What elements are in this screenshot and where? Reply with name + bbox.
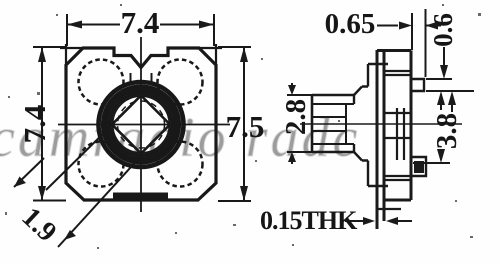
arrow 0.65 left: [426, 22, 439, 30]
svg-text:7.5: 7.5: [226, 109, 265, 144]
arrow 2.8 up (outside bottom): [288, 152, 296, 162]
dashed inner circle: [118, 101, 165, 148]
svg-text:2.8: 2.8: [280, 99, 312, 135]
dim: right 7.5 dimension line: [243, 47, 245, 201]
arrow 1.9 lower: [64, 230, 76, 240]
dim: left 7.4 dimension line: [41, 47, 43, 201]
dim 1.9 arrow tail upper: [14, 158, 44, 187]
dashed circle bottom-left: [79, 142, 124, 187]
snout (2.8 dia) outline: [312, 95, 354, 152]
plate right edge: [383, 50, 386, 221]
arrowheads group: [14, 21, 248, 241]
barrel (3.8 dia): [354, 64, 368, 186]
dim 2.8 line: [291, 83, 293, 164]
side centerline: [300, 123, 462, 125]
dashed circle bottom-right: [158, 142, 203, 187]
svg-text:0.6: 0.6: [428, 13, 458, 47]
centerline horizontal: [58, 124, 230, 126]
flange plate outline with chamfered corners: [66, 48, 216, 200]
ring 3: [107, 90, 176, 159]
arrow right7.5 up: [240, 47, 248, 62]
bottom tab: [411, 157, 426, 176]
dim 0.15 line: [345, 220, 412, 222]
barrel chamfer diagonals: [354, 87, 362, 161]
dim: right 7.5 extension lines: [218, 47, 251, 201]
arrow left7.4 up: [38, 47, 46, 62]
dim: top 7.4 dimension line: [67, 24, 214, 26]
top tab: [411, 79, 424, 91]
arrow 0.15 right: [363, 217, 375, 225]
svg-text:1.9: 1.9: [16, 202, 63, 249]
arrow 0.6 down: [440, 65, 448, 79]
body inner verticals: [397, 108, 404, 160]
bottom tab solder dot: [415, 162, 423, 172]
dashed circle top-left: [79, 60, 124, 105]
svg-text:0.65: 0.65: [325, 8, 376, 40]
svg-text:7.4: 7.4: [121, 5, 160, 40]
dim 3.8 ext line bottom: [413, 162, 450, 164]
svg-text:0.15THK: 0.15THK: [260, 206, 358, 235]
dim 0.65 ext lines: [412, 9, 426, 77]
arrow right7.5 down: [240, 186, 248, 201]
inner bore circle: [113, 96, 170, 153]
dim: top 7.4 extension lines: [67, 14, 214, 46]
arrow 3.8 down: [437, 149, 445, 163]
ring 2: [103, 87, 179, 163]
arrow top7.4 left: [67, 21, 82, 29]
arrow top7.4 right: [199, 21, 214, 29]
dim 0.65 leader: [377, 25, 441, 27]
notch edge hidden ticks: [131, 73, 152, 84]
dim 3.8 line: [440, 104, 442, 151]
snout inner bore lines: [312, 104, 354, 144]
arrow 1.9 upper: [14, 177, 26, 188]
arrow 2.8 down (outside top): [288, 85, 296, 95]
housing step: [368, 64, 388, 186]
watermark: [0, 107, 360, 169]
corner overshoot ticks: [60, 44, 222, 70]
arrow 0.15 left: [386, 217, 398, 225]
plate bottom stub: [377, 208, 401, 210]
outer ring of connector body: [99, 82, 184, 167]
plate (0.15 thk) left edge: [376, 50, 379, 229]
body inner horizontals: [384, 71, 411, 180]
dim: left 7.4 extension lines: [33, 47, 66, 201]
arrow 0.65 right: [399, 22, 412, 30]
dim 0.6 ext lines: [426, 79, 474, 91]
ring 4: [110, 94, 172, 156]
bottom tab bar: [113, 193, 168, 199]
back body: [377, 51, 411, 201]
dim 1.9 extension line lower: [58, 156, 141, 247]
arrow left7.4 down: [38, 186, 46, 201]
arrow 0.6 up: [448, 91, 456, 105]
centerline vertical: [140, 37, 142, 212]
dim 0.6 line: [444, 47, 452, 112]
square hole (diamond): [112, 96, 170, 154]
svg-text:7.4: 7.4: [17, 105, 52, 144]
svg-text:3.8: 3.8: [431, 113, 463, 149]
dim 2.8 ext lines: [287, 95, 312, 152]
dim 1.9 extension line upper: [46, 125, 112, 190]
arrow 3.8 up: [437, 91, 445, 105]
dashed circle top-right: [158, 60, 203, 105]
